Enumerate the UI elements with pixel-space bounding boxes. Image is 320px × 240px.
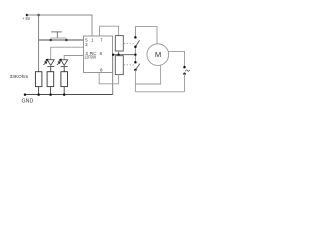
pushbutton S1 actuator [51, 32, 62, 38]
wire chain bottom to right rail [134, 70, 136, 92]
wire D1 to R2 [50, 67, 52, 72]
svg-text:33KOhm: 33KOhm [10, 74, 29, 80]
node +5V rail left end [26, 14, 29, 17]
resistor R1 [35, 72, 42, 87]
node coil junction [117, 54, 119, 56]
node contact B bottom [134, 69, 137, 72]
wire GND rail up to pin6 row [112, 55, 114, 95]
svg-text:+ 5V: + 5V [22, 16, 31, 22]
wire R2 to GND [50, 87, 52, 95]
node contact B top [134, 61, 137, 64]
wire chain top to motor top [135, 26, 157, 43]
node R2 GND [49, 93, 52, 96]
LED D1 [47, 60, 54, 67]
node switch right contact [65, 39, 68, 42]
wire right bottom rail [135, 91, 184, 93]
wire switch C to right rail [184, 74, 186, 92]
resistor R2 [47, 72, 54, 87]
node R3 GND [63, 93, 66, 96]
wire contact chain top [134, 26, 136, 37]
wire pin 6 row to contact chain [113, 54, 136, 56]
pushbutton S1 bridge [51, 37, 67, 39]
node switch left contact [49, 39, 52, 42]
svg-text:GND: GND [22, 99, 34, 105]
dashed link coil B [124, 64, 135, 66]
svg-text:M: M [155, 50, 161, 59]
wire motor bottom loop [135, 65, 160, 84]
wire coil A bottom [118, 51, 120, 55]
GND rail [25, 94, 113, 96]
wire chain mid [134, 47, 136, 63]
node pin6 chain junction [134, 54, 136, 56]
relay coil B [115, 56, 123, 75]
resistor R3 [61, 72, 68, 87]
node contact A bottom [134, 45, 137, 48]
wire D2 to R3 [63, 67, 65, 72]
relay contact B lever [135, 64, 140, 70]
node GND end [24, 93, 27, 96]
node contact A top [134, 36, 137, 39]
relay contact A lever [135, 40, 139, 47]
node switch C top [183, 66, 186, 69]
wire R3 to GND [63, 87, 65, 95]
arrows into D1 [43, 59, 47, 65]
dashed link coil A [124, 43, 135, 45]
node pin 6 [112, 54, 114, 56]
LED D2 [61, 60, 68, 67]
wire pin 2 row to LED D1 [51, 47, 84, 60]
wire pin 3 row to LED D2 [64, 56, 83, 60]
wire +5V rail to IC pin 1 [27, 15, 92, 36]
wire motor right [168, 51, 184, 66]
wire +5V drop down to R1 [38, 15, 40, 72]
node +5V drop junction [37, 14, 40, 17]
wire pin 5 row [39, 39, 84, 41]
wire pin 7 to relay coil A [100, 26, 119, 36]
wire R1 to GND [38, 87, 40, 95]
motor M1 [147, 44, 169, 66]
relay coil A [115, 36, 123, 51]
arrows into D2 [57, 59, 61, 65]
svg-text:12F508: 12F508 [84, 55, 96, 60]
node switch C bottom [183, 72, 186, 75]
wire coil B bottom to pin 8 hub [99, 73, 118, 84]
node R1 GND [37, 93, 40, 96]
switch C squiggle [185, 70, 189, 72]
IC U1 PIC12F508 [84, 36, 113, 73]
